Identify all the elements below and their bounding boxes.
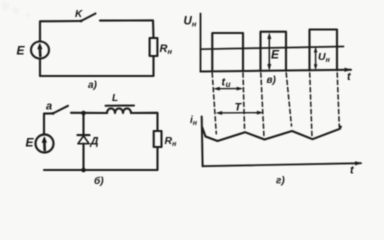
- source E (circuit b): [36, 135, 54, 153]
- wire: circuit a top run switch to right corner, down to resistor: [100, 20, 154, 38]
- svg-text:T: T: [235, 102, 243, 114]
- svg-text:Д: Д: [90, 136, 99, 148]
- svg-text:Uн: Uн: [184, 16, 197, 29]
- dashed line D6 (pulse3 right): [337, 73, 339, 127]
- pulse 1: [212, 33, 243, 71]
- resistor R_n (circuit a): [150, 38, 158, 56]
- marker t_и arrow: [216, 88, 241, 90]
- switch blade (circuit b): [53, 106, 68, 114]
- switch K blade (circuit a): [81, 14, 96, 22]
- wire: circuit b top run to diode node and to inductor: [71, 112, 107, 114]
- svg-text:Rн: Rн: [165, 135, 178, 148]
- wire: circuit b top right + down to resistor: [131, 113, 158, 131]
- dashed line D4 (pulse2 right): [286, 73, 291, 126]
- dashed line D5 (pulse3 left): [310, 73, 312, 137]
- inductor L (circuit b): [107, 108, 131, 113]
- svg-text:L: L: [112, 93, 118, 104]
- source E (circuit a): [31, 42, 49, 59]
- node: diode top junction: [81, 111, 86, 116]
- scan artifact: faint top-left smudge: [2, 2, 30, 17]
- U_n arrow (double-headed, after pulse 3 left edge): [315, 49, 317, 68]
- svg-text:в): в): [267, 75, 277, 86]
- svg-text:Rн: Rн: [160, 43, 173, 56]
- marker T arrow: [219, 112, 261, 114]
- svg-text:б): б): [94, 175, 104, 187]
- svg-text:а): а): [88, 80, 98, 91]
- wire: circuit b right lower + bottom run: [44, 147, 158, 170]
- dashed line D1 (pulse1 left): [212, 73, 216, 134]
- svg-text:Uн: Uн: [318, 51, 331, 64]
- svg-text:E: E: [271, 48, 280, 62]
- svg-text:t: t: [347, 71, 352, 83]
- svg-text:tи: tи: [222, 77, 231, 90]
- current curve i_n: [202, 127, 341, 141]
- wire: circuit a left vertical + top run to switch hinge: [40, 21, 81, 76]
- axis: t axis (graph в): [201, 70, 352, 72]
- svg-text:t: t: [350, 165, 355, 177]
- pulse 3: [310, 30, 338, 71]
- switch hinge dot (circuit b): [52, 112, 55, 115]
- switch K hinge dot: [80, 20, 83, 23]
- svg-text:E: E: [17, 44, 26, 58]
- midline (mean U level): [201, 47, 344, 50]
- axis: t axis (graph г): [203, 163, 361, 166]
- pulse 2: [261, 32, 287, 71]
- axis: vertical i axis: [201, 117, 204, 167]
- resistor R_n (circuit b): [154, 131, 162, 147]
- svg-text:а: а: [46, 101, 52, 113]
- svg-text:iн: iн: [190, 115, 198, 127]
- diode branch wire: [82, 113, 84, 170]
- diode Д: [78, 136, 89, 144]
- inductor core bar: [106, 105, 135, 107]
- E arrow (double-headed, inside pulse 2): [268, 36, 270, 69]
- dashed line D3 (pulse2 left): [261, 73, 264, 138]
- svg-text:K: K: [75, 9, 83, 20]
- axis: vertical U axis: [200, 14, 202, 72]
- wire: circuit a right lower + bottom run: [40, 56, 154, 76]
- wire: circuit b left vertical + stub to switch: [44, 113, 53, 134]
- svg-text:г): г): [276, 176, 285, 187]
- svg-text:E: E: [26, 136, 35, 150]
- dashed line D2 (pulse1 right): [243, 73, 245, 129]
- node: diode bottom junction: [81, 168, 86, 173]
